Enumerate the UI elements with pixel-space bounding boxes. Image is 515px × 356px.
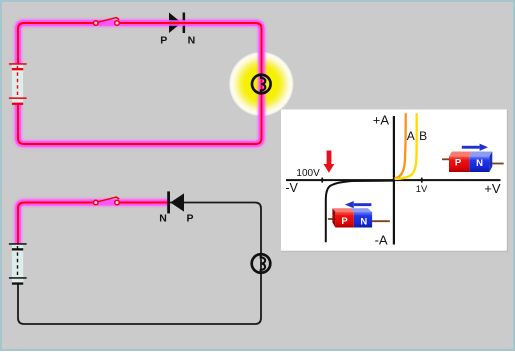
svg-text:N: N <box>360 217 367 228</box>
svg-text:-V: -V <box>285 181 298 195</box>
svg-text:P: P <box>341 216 348 227</box>
svg-text:1V: 1V <box>416 184 428 195</box>
svg-text:+V: +V <box>484 181 501 196</box>
svg-text:P: P <box>187 212 194 224</box>
svg-text:N: N <box>188 35 196 47</box>
svg-text:A: A <box>407 129 415 143</box>
svg-text:N: N <box>476 158 483 169</box>
svg-text:P: P <box>160 35 167 47</box>
svg-text:B: B <box>419 129 427 143</box>
svg-text:P: P <box>455 158 462 169</box>
svg-text:100V: 100V <box>296 168 320 179</box>
svg-text:-A: -A <box>375 233 388 248</box>
svg-text:N: N <box>159 212 167 224</box>
svg-text:+A: +A <box>373 113 390 128</box>
